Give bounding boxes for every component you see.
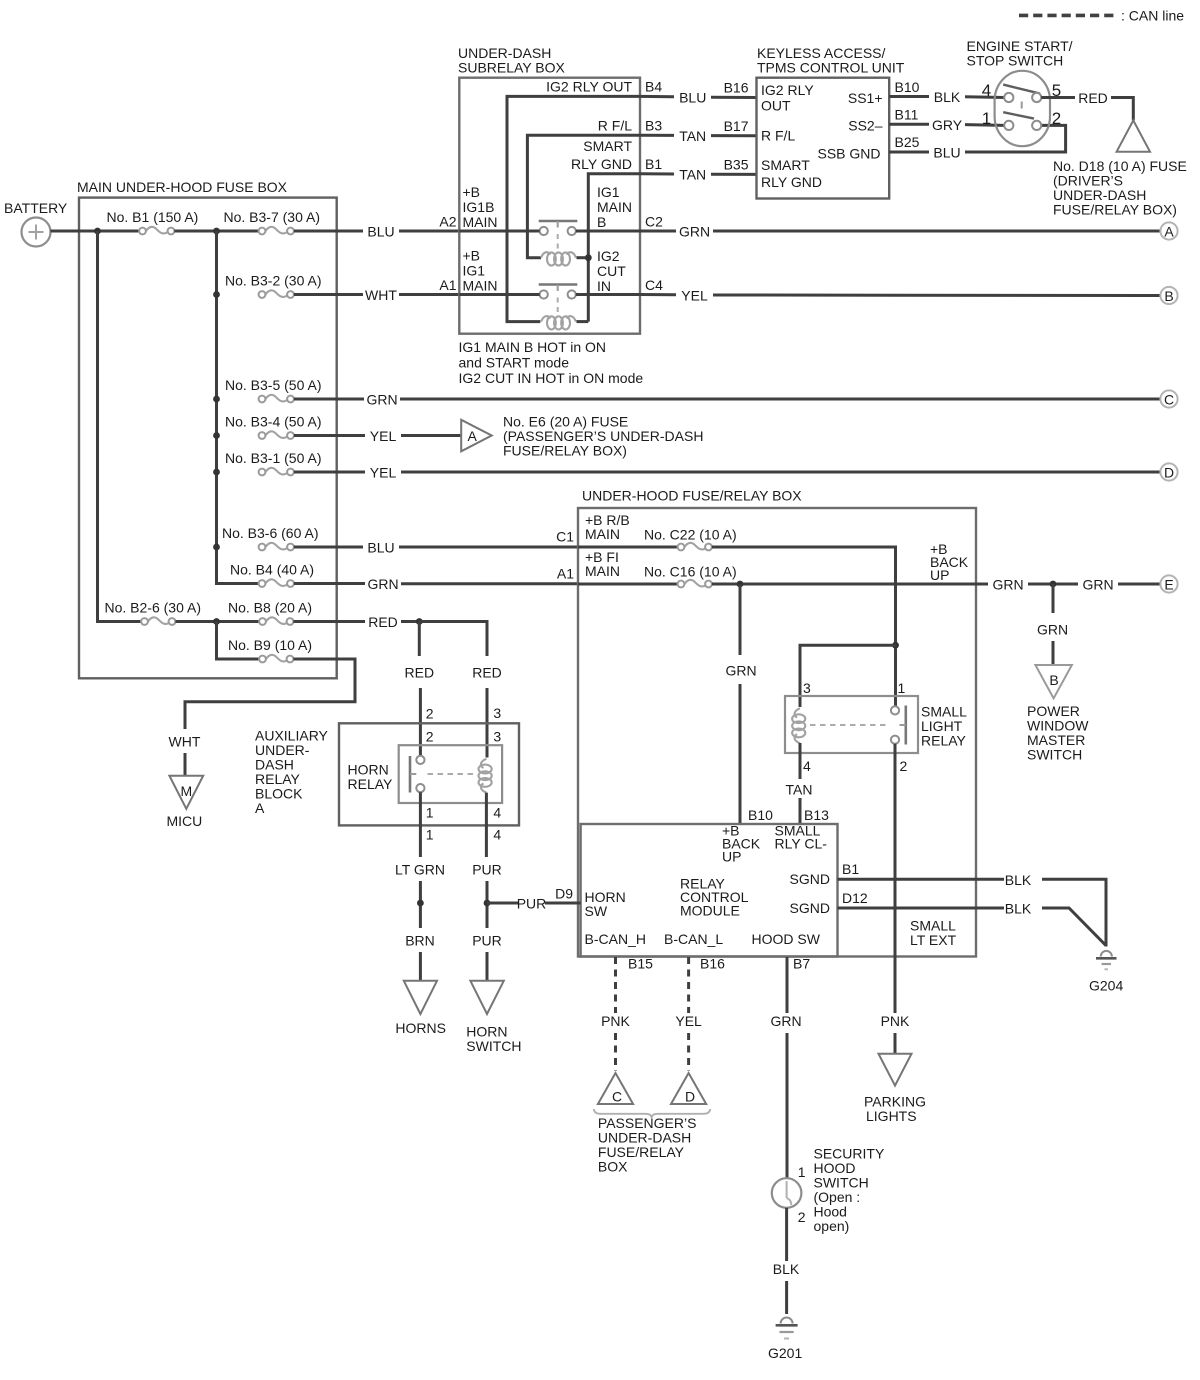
small light relay: [785, 696, 967, 753]
wire A1 +B IG1 MAIN into contact: [459, 293, 539, 296]
fuse B4: [230, 562, 314, 587]
wire B3-7 out / net A: [294, 230, 363, 233]
connector ring D: [1160, 463, 1177, 480]
svg-text:HORNS: HORNS: [395, 1020, 446, 1036]
wire B8 out / horn feed: [293, 620, 365, 623]
wire SGND B1 to G204: [838, 878, 1005, 881]
svg-text:No. B2-6 (30 A): No. B2-6 (30 A): [105, 600, 202, 616]
svg-text:: CAN line: : CAN line: [1121, 8, 1184, 24]
label horn relay: [348, 762, 394, 793]
svg-text:SWITCH: SWITCH: [466, 1038, 521, 1054]
svg-text:FUSE/RELAY BOX): FUSE/RELAY BOX): [503, 443, 627, 459]
wire SGND D12 to G204: [838, 907, 1005, 910]
svg-text:No. B8 (20 A): No. B8 (20 A): [228, 600, 312, 616]
label note IG1/IG2 modes: [459, 339, 644, 386]
svg-text:B: B: [1164, 288, 1173, 304]
wire SS1+ B10 to switch pin 4: [889, 95, 929, 98]
svg-text:3: 3: [803, 680, 811, 696]
wire horn relay pin 4 to horn switch: [485, 793, 488, 857]
svg-text:A: A: [1164, 224, 1174, 240]
svg-text:B4: B4: [645, 79, 662, 95]
svg-text:D12: D12: [842, 890, 868, 906]
svg-text:1: 1: [898, 680, 906, 696]
svg-text:RED: RED: [405, 665, 435, 681]
under-dash subrelay box: [458, 45, 640, 334]
relay IG1 MAIN B contact: [539, 221, 578, 251]
node B3-1 junction: [213, 469, 220, 476]
ground G201: [768, 1318, 802, 1362]
svg-text:A1: A1: [439, 277, 456, 293]
wire B-CAN_H B15 (CAN): [614, 957, 617, 1013]
fuse C16: [644, 564, 737, 588]
pin numbers small light relay: [803, 680, 908, 774]
svg-text:2: 2: [1052, 109, 1061, 128]
connector C: [598, 1073, 633, 1105]
svg-text:UP: UP: [930, 567, 949, 583]
wire GRN drop to module B10: [739, 584, 742, 655]
svg-text:C: C: [612, 1089, 622, 1105]
wire branch to pin 3: [800, 645, 896, 707]
svg-text:D9: D9: [555, 886, 573, 902]
svg-text:SS2–: SS2–: [848, 118, 882, 134]
node B3 column top junction: [213, 228, 220, 235]
svg-text:G201: G201: [768, 1345, 802, 1361]
wire B-CAN_L B16 (CAN): [687, 957, 690, 1013]
wire B1 to B3 column: [174, 230, 258, 233]
svg-text:PNK: PNK: [601, 1013, 630, 1029]
node B3-2 junction: [213, 291, 220, 298]
wire pin 4 to module B13: [799, 753, 802, 779]
connector horns: [395, 981, 446, 1036]
svg-text:YEL: YEL: [675, 1013, 702, 1029]
svg-text:MODULE: MODULE: [680, 903, 740, 919]
svg-text:FUSE/RELAY BOX): FUSE/RELAY BOX): [1053, 202, 1177, 218]
node small light relay feed junction: [892, 642, 899, 649]
svg-text:A: A: [255, 800, 265, 816]
fuse B3-1: [225, 450, 322, 475]
wire vertical feed 1: [98, 231, 141, 622]
horn relay: [399, 745, 502, 803]
svg-text:YEL: YEL: [370, 465, 397, 481]
node power window branch: [1050, 581, 1057, 588]
svg-text:BLK: BLK: [934, 89, 961, 105]
svg-text:BLU: BLU: [679, 90, 706, 106]
svg-text:B: B: [597, 214, 606, 230]
svg-text:IN: IN: [597, 278, 611, 294]
svg-text:SSB GND: SSB GND: [817, 146, 880, 162]
wire pin 2 to parking lights: [894, 744, 897, 1013]
svg-text:B11: B11: [895, 107, 919, 123]
svg-text:IG2: IG2: [597, 248, 620, 264]
svg-text:MICU: MICU: [167, 813, 203, 829]
svg-text:RELAY: RELAY: [348, 776, 394, 792]
svg-text:A1: A1: [557, 566, 574, 582]
svg-text:open): open): [814, 1218, 850, 1234]
svg-text:UP: UP: [722, 849, 741, 865]
wire B3-2 out / net B: [294, 293, 363, 296]
svg-text:No. B1 (150 A): No. B1 (150 A): [107, 209, 199, 225]
svg-text:D: D: [685, 1089, 695, 1105]
svg-text:SGND: SGND: [790, 871, 830, 887]
connector horn switch: [466, 981, 521, 1054]
fuse B3-6: [222, 525, 319, 550]
svg-text:GRN: GRN: [1037, 622, 1068, 638]
wire A1 to fuse C16: [578, 583, 678, 586]
svg-text:TPMS CONTROL UNIT: TPMS CONTROL UNIT: [757, 60, 905, 76]
svg-text:BATTERY: BATTERY: [4, 200, 68, 216]
wire IG2 RLY OUT (B4 net): [507, 96, 640, 321]
fuse B3-4: [225, 414, 322, 439]
node B3-5 junction: [213, 396, 220, 403]
fuse B9: [228, 637, 312, 662]
wire B3-5 out / net C: [294, 398, 364, 401]
pin labels module top: [748, 807, 829, 823]
fuse B8: [228, 600, 312, 625]
svg-text:2: 2: [798, 1209, 806, 1225]
svg-text:IG2 CUT IN HOT in ON mode: IG2 CUT IN HOT in ON mode: [459, 370, 644, 386]
svg-text:MAIN: MAIN: [597, 199, 632, 215]
pin A1 +B FI MAIN: [557, 549, 620, 582]
wire B1 to keyless B35: [640, 172, 674, 175]
wire horn relay pin 2 feed: [418, 622, 421, 657]
svg-text:and START mode: and START mode: [459, 355, 570, 371]
fuse B1: [107, 209, 199, 234]
svg-text:TAN: TAN: [679, 128, 706, 144]
svg-text:UNDER-HOOD FUSE/RELAY BOX: UNDER-HOOD FUSE/RELAY BOX: [582, 488, 802, 504]
svg-text:GRN: GRN: [1082, 577, 1113, 593]
wire SMART RLY GND (B1 net): [588, 174, 640, 322]
brace passenger's box: [594, 1109, 710, 1118]
auxiliary under-dash relay block A: [255, 723, 519, 825]
node horn switch junction: [484, 900, 491, 907]
connector ring B: [1160, 287, 1177, 304]
svg-text:TAN: TAN: [679, 167, 706, 183]
svg-text:MAIN UNDER-HOOD FUSE BOX: MAIN UNDER-HOOD FUSE BOX: [77, 179, 288, 195]
svg-text:YEL: YEL: [681, 287, 708, 303]
svg-text:2: 2: [426, 729, 434, 745]
relay IG1 MAIN B coil: [541, 252, 585, 265]
wire C4 out / net B: [576, 293, 640, 296]
svg-text:BLK: BLK: [1005, 901, 1032, 917]
connector ring E: [1160, 575, 1177, 592]
svg-text:SMART: SMART: [761, 157, 810, 173]
wire A2 +B IG1B MAIN into contact: [459, 230, 539, 233]
wire battery to B1 fuse: [51, 230, 140, 233]
svg-text:B13: B13: [804, 807, 829, 823]
svg-text:3: 3: [493, 729, 501, 745]
wire B2-6 to B8: [175, 620, 259, 623]
wire C2 out / net A: [576, 230, 640, 233]
svg-text:YEL: YEL: [370, 428, 397, 444]
wire B3-1 out / net D: [294, 471, 365, 474]
svg-text:B1: B1: [645, 156, 662, 172]
node B3-6 junction: [213, 544, 220, 551]
svg-text:2: 2: [426, 706, 434, 722]
connector ring C: [1160, 390, 1177, 407]
svg-text:4: 4: [493, 805, 501, 821]
wire B3 to keyless B17: [640, 134, 674, 137]
fuse B3-2: [225, 273, 322, 298]
wire HOOD SW B7 to hood switch: [786, 957, 789, 1013]
fuse C22: [644, 527, 737, 551]
svg-text:TAN: TAN: [786, 782, 813, 798]
svg-text:C4: C4: [645, 277, 663, 293]
svg-text:SGND: SGND: [790, 900, 830, 916]
svg-text:B: B: [1049, 672, 1058, 688]
svg-text:A2: A2: [439, 214, 456, 230]
connector M (MICU): [167, 776, 204, 829]
wire vertical feed 3 (B9): [217, 622, 260, 660]
svg-text:LT GRN: LT GRN: [395, 862, 445, 878]
svg-text:B-CAN_L: B-CAN_L: [664, 931, 723, 947]
relay IG2 CUT IN contact: [539, 285, 578, 315]
wire SSB GND B25 to switch pin 2: [889, 151, 929, 154]
connector A (E6 fuse): [461, 414, 703, 459]
wire C22 out to small light relay pin 1: [712, 547, 896, 706]
svg-text:B-CAN_H: B-CAN_H: [585, 931, 646, 947]
svg-text:GRN: GRN: [366, 392, 397, 408]
wire B3-6 out to C1: [294, 546, 363, 549]
svg-text:HOOD SW: HOOD SW: [752, 931, 821, 947]
svg-text:BLU: BLU: [367, 224, 394, 240]
wire switch pin 5 to D18 fuse: [1041, 96, 1075, 99]
svg-text:BLU: BLU: [367, 540, 394, 556]
svg-text:WHT: WHT: [365, 287, 397, 303]
svg-text:B15: B15: [628, 956, 653, 972]
label D18 fuse: [1053, 158, 1187, 218]
svg-text:GRN: GRN: [992, 577, 1023, 593]
svg-text:2: 2: [900, 758, 908, 774]
svg-text:C: C: [1164, 392, 1174, 408]
svg-text:G204: G204: [1089, 978, 1123, 994]
svg-text:PUR: PUR: [472, 933, 502, 949]
svg-text:GRN: GRN: [679, 224, 710, 240]
svg-text:MAIN: MAIN: [463, 278, 498, 294]
svg-text:No. B3-5 (50 A): No. B3-5 (50 A): [225, 377, 322, 393]
wire hood switch to G201: [785, 1208, 788, 1261]
svg-text:IG2 RLY OUT: IG2 RLY OUT: [546, 79, 632, 95]
wire horn relay pin 1 to horns: [419, 792, 422, 857]
svg-text:PUR: PUR: [472, 862, 502, 878]
svg-text:4: 4: [803, 758, 811, 774]
svg-text:No. B3-6 (60 A): No. B3-6 (60 A): [222, 525, 319, 541]
node B3-4 junction: [213, 432, 220, 439]
svg-text:SMART: SMART: [583, 138, 632, 154]
svg-text:3: 3: [493, 705, 501, 721]
svg-text:MAIN: MAIN: [585, 563, 620, 579]
svg-text:BOX: BOX: [598, 1159, 628, 1175]
svg-text:+B: +B: [463, 184, 481, 200]
svg-text:SUBRELAY BOX: SUBRELAY BOX: [458, 60, 566, 76]
wire vertical feed 2 (B3 column): [217, 231, 259, 584]
security hood switch: [772, 1146, 885, 1235]
wire C1 to fuse C22: [578, 546, 678, 549]
svg-text:RED: RED: [472, 665, 502, 681]
svg-text:CUT: CUT: [597, 263, 626, 279]
svg-text:B3: B3: [645, 118, 662, 134]
svg-text:B10: B10: [895, 79, 920, 95]
main under-hood fuse box: [77, 179, 337, 678]
svg-text:RELAY: RELAY: [921, 733, 967, 749]
svg-text:GRN: GRN: [725, 663, 756, 679]
svg-text:4: 4: [982, 81, 991, 100]
svg-text:D: D: [1164, 465, 1174, 481]
wire B3-4 out to connector A: [294, 434, 365, 437]
svg-text:B1: B1: [842, 861, 859, 877]
svg-text:SWITCH: SWITCH: [1027, 747, 1082, 763]
svg-text:GRN: GRN: [770, 1013, 801, 1029]
svg-text:B16: B16: [724, 80, 749, 96]
svg-text:BLK: BLK: [773, 1261, 800, 1277]
svg-text:1: 1: [426, 805, 434, 821]
svg-text:RED: RED: [1078, 90, 1108, 106]
svg-text:A: A: [468, 428, 478, 444]
node horns junction: [417, 900, 424, 907]
wire SS2- B11 to switch pin 1: [889, 123, 929, 126]
ground G204: [1089, 951, 1123, 994]
pin numbers horn relay: [426, 705, 502, 843]
svg-text:No. B4 (40 A): No. B4 (40 A): [230, 562, 314, 578]
svg-text:RED: RED: [368, 614, 398, 630]
svg-text:B10: B10: [748, 807, 773, 823]
wire B4 out to A1: [294, 582, 365, 585]
connector parking lights: [864, 1054, 926, 1124]
wire branch to module D9: [487, 902, 518, 905]
svg-text:IG1 MAIN B HOT in ON: IG1 MAIN B HOT in ON: [459, 339, 607, 355]
label SMALL LT EXT: [910, 918, 957, 949]
svg-text:1: 1: [982, 109, 991, 128]
svg-text:PNK: PNK: [881, 1013, 910, 1029]
svg-text:WHT: WHT: [169, 734, 201, 750]
svg-text:B25: B25: [895, 134, 920, 150]
svg-text:RLY GND: RLY GND: [761, 174, 822, 190]
svg-text:B17: B17: [724, 118, 749, 134]
svg-text:BLK: BLK: [1005, 872, 1032, 888]
label passenger's under-dash fuse/relay box: [598, 1115, 697, 1175]
svg-text:C1: C1: [556, 529, 574, 545]
svg-text:IG1: IG1: [463, 263, 486, 279]
svg-text:1: 1: [426, 827, 434, 843]
svg-text:MAIN: MAIN: [585, 526, 620, 542]
fuse B3-7: [224, 209, 321, 234]
svg-text:4: 4: [493, 827, 501, 843]
svg-text:IG1B: IG1B: [463, 199, 495, 215]
svg-text:LT EXT: LT EXT: [910, 932, 957, 948]
svg-text:MAIN: MAIN: [463, 214, 498, 230]
svg-text:RLY CL-: RLY CL-: [775, 836, 828, 852]
CAN line legend: [1019, 8, 1184, 24]
svg-text:B7: B7: [793, 956, 810, 972]
svg-text:C2: C2: [645, 214, 663, 230]
connector D18 fuse triangle: [1117, 120, 1150, 151]
svg-text:RLY GND: RLY GND: [571, 156, 632, 172]
svg-text:SS1+: SS1+: [848, 90, 883, 106]
svg-text:M: M: [180, 783, 192, 799]
svg-text:No. B3-2 (30 A): No. B3-2 (30 A): [225, 273, 322, 289]
wire horn feed to pin3 branch: [419, 622, 487, 657]
svg-text:GRN: GRN: [367, 576, 398, 592]
svg-text:PUR: PUR: [517, 896, 547, 912]
fuse B3-5: [225, 377, 322, 402]
node horn feed split: [416, 618, 423, 625]
svg-text:SW: SW: [585, 903, 608, 919]
svg-text:GRY: GRY: [932, 117, 963, 133]
relay IG2 CUT IN coil: [541, 316, 588, 329]
svg-text:No. B3-7 (30 A): No. B3-7 (30 A): [224, 209, 321, 225]
svg-text:No. B3-4 (50 A): No. B3-4 (50 A): [225, 414, 322, 430]
svg-text:IG2 RLY: IG2 RLY: [761, 82, 814, 98]
connector B (power window master switch): [1027, 665, 1089, 763]
svg-text:B16: B16: [700, 956, 725, 972]
svg-text:No. C22 (10 A): No. C22 (10 A): [644, 527, 737, 543]
svg-text:IG1: IG1: [597, 184, 620, 200]
node module +B backup junction: [737, 581, 744, 588]
label +B BACK UP: [930, 541, 969, 583]
engine start/stop switch: [967, 38, 1073, 146]
svg-text:No. B9 (10 A): No. B9 (10 A): [228, 637, 312, 653]
wire C16 out / net E: [712, 583, 988, 586]
svg-text:No. C16 (10 A): No. C16 (10 A): [644, 564, 737, 580]
connector ring A: [1160, 222, 1177, 239]
wire R F/L (B3 net): [527, 135, 640, 258]
svg-text:No. B3-1 (50 A): No. B3-1 (50 A): [225, 450, 322, 466]
svg-text:1: 1: [798, 1164, 806, 1180]
wire to power window master switch: [1052, 584, 1055, 613]
wire B9 out to MICU: [185, 659, 355, 729]
wire B4 to keyless B16: [640, 95, 674, 98]
svg-text:E: E: [1164, 577, 1173, 593]
under-hood fuse/relay box: [578, 488, 976, 957]
label IG1 MAIN B: [597, 184, 632, 230]
svg-text:B35: B35: [724, 156, 749, 172]
svg-text:OUT: OUT: [761, 98, 791, 114]
connector D: [671, 1073, 706, 1105]
svg-text:BRN: BRN: [405, 933, 435, 949]
fuse B2-6: [105, 600, 202, 625]
battery: [4, 200, 68, 247]
svg-text:LIGHTS: LIGHTS: [866, 1108, 917, 1124]
relay control module: [581, 823, 838, 957]
svg-text:STOP SWITCH: STOP SWITCH: [967, 53, 1064, 69]
node battery feed junction: [94, 228, 101, 235]
pin C1 +B R/B MAIN: [556, 512, 630, 545]
keyless access / TPMS control unit: [757, 45, 905, 199]
svg-text:R F/L: R F/L: [598, 118, 632, 134]
label IG2 CUT IN: [597, 248, 626, 294]
svg-text:R F/L: R F/L: [761, 128, 795, 144]
svg-text:BLU: BLU: [933, 145, 960, 161]
node IG1 coil / B1 junction: [585, 254, 592, 261]
svg-text:+B: +B: [463, 248, 481, 264]
node B8/B9 junction: [213, 618, 220, 625]
